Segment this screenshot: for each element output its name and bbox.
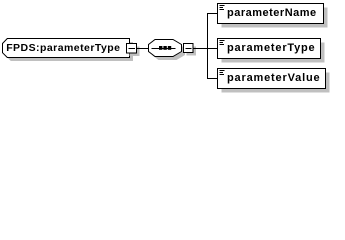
svg-text:parameterName: parameterName [227, 7, 317, 19]
svg-text:parameterType: parameterType [227, 42, 315, 54]
element box parameterValue [218, 69, 330, 93]
wire from element to sequence [137, 48, 149, 50]
wire from sequence to branch [193, 48, 218, 50]
element box parameterName [218, 4, 328, 28]
expand button on FPDS:parameterType [127, 44, 140, 57]
element box parameterType [218, 39, 325, 63]
expand button on sequence [184, 44, 197, 56]
text-content icon of parameterValue [220, 71, 225, 75]
branch vertical wire with wires to parameterName and parameterValue [208, 14, 218, 79]
sequence compositor [149, 40, 186, 61]
wire from sequence to its expand button [182, 48, 184, 50]
text-content icon of parameterType [220, 41, 225, 45]
svg-text:parameterValue: parameterValue [227, 72, 320, 84]
svg-text:FPDS:parameterType: FPDS:parameterType [6, 42, 120, 54]
element box FPDS:parameterType [3, 39, 134, 62]
text-content icon of parameterName [220, 6, 225, 10]
